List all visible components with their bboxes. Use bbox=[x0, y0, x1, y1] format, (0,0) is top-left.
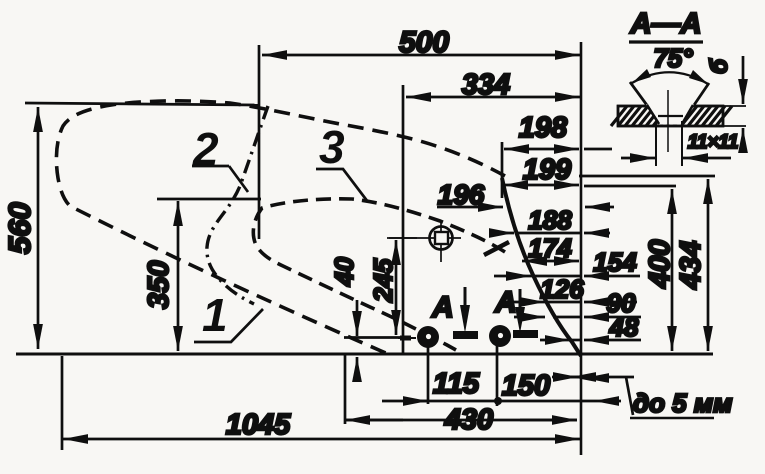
dimension line 115 / 150 bbox=[382, 400, 594, 403]
svg-text:126: 126 bbox=[540, 274, 584, 304]
dimension 430 bbox=[345, 419, 403, 422]
blade edge (solid curve) bbox=[502, 178, 581, 356]
small arrows at right of 150 bbox=[552, 376, 578, 379]
dimension 199 bbox=[503, 184, 579, 187]
dimension 188 bbox=[515, 232, 580, 235]
section arrow A (right) bbox=[519, 289, 522, 312]
dimension 174 bbox=[522, 260, 579, 263]
75 degree arc with arrows bbox=[632, 72, 708, 84]
main right vertical extension line bbox=[580, 42, 583, 455]
bold dash of curve 3 near blade bbox=[484, 242, 509, 255]
svg-text:245: 245 bbox=[368, 258, 398, 303]
dimension 560 bbox=[37, 107, 40, 349]
section arrow A (left) bbox=[464, 287, 467, 310]
svg-text:А: А bbox=[431, 291, 454, 324]
svg-text:154: 154 bbox=[593, 247, 637, 277]
svg-text:150: 150 bbox=[502, 370, 550, 402]
dimension 48 bbox=[540, 339, 570, 342]
weld notch bbox=[646, 105, 694, 125]
svg-text:б: б bbox=[706, 58, 733, 74]
slot bars on cut line bbox=[453, 331, 478, 339]
extension line 245 bbox=[387, 237, 417, 239]
svg-text:198: 198 bbox=[519, 112, 568, 144]
dimension 1045 bbox=[63, 438, 580, 441]
dimension 126 bbox=[505, 301, 545, 304]
dimension 40 bbox=[356, 300, 359, 336]
svg-text:1: 1 bbox=[202, 289, 228, 341]
svg-text:48: 48 bbox=[609, 312, 639, 342]
dimension 400 bbox=[671, 189, 674, 351]
baseline bbox=[16, 353, 713, 356]
bolt 2 bbox=[489, 325, 511, 347]
center line of section bbox=[667, 90, 669, 152]
svg-text:560: 560 bbox=[2, 202, 37, 254]
svg-text:40: 40 bbox=[329, 257, 359, 287]
bolt extension lines bbox=[427, 345, 430, 404]
svg-text:174: 174 bbox=[528, 233, 572, 263]
svg-text:199: 199 bbox=[523, 154, 571, 186]
square hole symbol bbox=[430, 227, 453, 250]
svg-text:75°: 75° bbox=[653, 43, 693, 73]
svg-text:350: 350 bbox=[143, 261, 175, 309]
dimension 500 bbox=[262, 54, 580, 57]
leader до 5 мм bbox=[571, 376, 634, 379]
top extension line for 400 bbox=[584, 185, 676, 188]
hole extension lines 11x11 bbox=[656, 121, 682, 166]
dimension 154 bbox=[494, 275, 531, 278]
svg-text:400: 400 bbox=[644, 240, 676, 289]
dimension 334 bbox=[406, 96, 580, 99]
svg-text:430: 430 bbox=[444, 404, 493, 436]
svg-text:334: 334 bbox=[462, 69, 510, 101]
extension line 350 bbox=[157, 198, 261, 201]
dimension 90 bbox=[514, 316, 545, 319]
svg-text:196: 196 bbox=[438, 179, 485, 210]
hatched plate cross-section bbox=[611, 106, 732, 126]
top extension line for 434 bbox=[579, 175, 715, 178]
moldboard outline curve 1 (dashed) bbox=[56, 101, 505, 354]
weld groove V lines bbox=[630, 82, 709, 108]
svg-text:11×11: 11×11 bbox=[688, 132, 739, 153]
svg-text:1045: 1045 bbox=[226, 409, 291, 441]
svg-text:А—А: А—А bbox=[630, 8, 702, 40]
svg-text:500: 500 bbox=[399, 26, 449, 59]
extension line for 198 bbox=[501, 142, 504, 198]
dimension 350 bbox=[177, 201, 180, 351]
dimension 434 bbox=[707, 179, 710, 351]
extension line 1045 bbox=[61, 356, 64, 450]
dimension 11x11 bbox=[621, 157, 655, 160]
svg-text:188: 188 bbox=[528, 205, 572, 235]
extension line left of 334 bbox=[402, 85, 405, 354]
svg-text:434: 434 bbox=[675, 241, 707, 290]
extension line left of 500 bbox=[258, 45, 261, 239]
svg-text:115: 115 bbox=[433, 368, 480, 400]
top extension line (560) bbox=[25, 103, 259, 105]
bolt 1 bbox=[417, 326, 439, 348]
dimension 196 bbox=[437, 206, 503, 209]
share cross-section curve 2 (dash-dot) bbox=[207, 106, 268, 304]
dimension 245 bbox=[395, 240, 398, 335]
dimension 198 bbox=[504, 148, 579, 151]
inner plate outline curve 3 (dashed) bbox=[253, 199, 505, 350]
svg-text:А: А bbox=[494, 286, 517, 319]
svg-text:до 5 мм: до 5 мм bbox=[633, 388, 732, 418]
extension line 430 bbox=[344, 354, 347, 424]
svg-text:3: 3 bbox=[319, 121, 345, 173]
plate edge extensions bbox=[723, 106, 746, 126]
